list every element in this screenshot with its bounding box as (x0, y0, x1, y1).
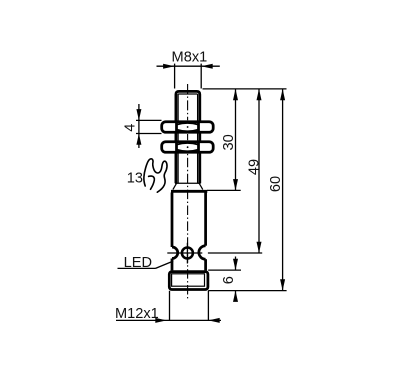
svg-text:49: 49 (247, 159, 263, 175)
svg-text:6: 6 (221, 276, 237, 284)
svg-text:LED: LED (124, 255, 152, 271)
svg-text:4: 4 (122, 124, 138, 132)
svg-text:60: 60 (268, 176, 284, 192)
svg-text:M8x1: M8x1 (172, 49, 208, 65)
svg-text:13: 13 (127, 171, 143, 187)
svg-text:M12x1: M12x1 (115, 306, 159, 322)
svg-text:30: 30 (221, 134, 237, 150)
